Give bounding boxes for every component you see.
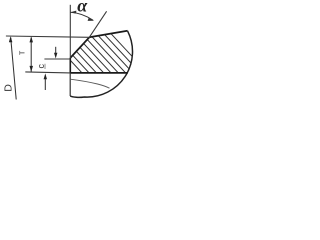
dimension c lower arrow (points up at line B) bbox=[44, 79, 46, 91]
arrowhead T top bbox=[30, 36, 34, 42]
dimension line T bbox=[30, 38, 32, 72]
top face edge (thick) bbox=[89, 31, 127, 38]
chamfer edge (thick) bbox=[70, 37, 89, 58]
arc arrowhead right (at chamfer extension) bbox=[88, 18, 95, 21]
dimension line D (slanted slightly) bbox=[11, 38, 17, 100]
spherical silhouette (right + bottom circular arc) bbox=[70, 31, 132, 98]
hatching (section lines) bbox=[5, 0, 182, 110]
small stem above line B bbox=[44, 64, 46, 69]
top reference line A (thin) bbox=[6, 36, 89, 37]
bore/sphere intersection edge (thin line) bbox=[70, 79, 109, 88]
arrowhead D top bbox=[9, 36, 13, 42]
svg-text:D: D bbox=[3, 84, 15, 92]
lower left edge of part (below section) bbox=[69, 73, 71, 96]
svg-text:c: c bbox=[36, 64, 46, 69]
dimension c upper arrow (points down at line C) bbox=[55, 47, 57, 54]
mid reference line C (thin, chamfer vertex level) bbox=[44, 58, 70, 60]
svg-text:T: T bbox=[19, 50, 26, 55]
chamfer extension line (thin, for angle) bbox=[89, 11, 106, 37]
left vertical edge of part bbox=[69, 58, 71, 73]
section boundary bottom edge (thick) bbox=[70, 72, 128, 74]
vertical extension line above vertex (angle reference) bbox=[69, 5, 71, 58]
arc arrowhead left (at vertical line) bbox=[70, 11, 76, 14]
angle dimension arc bbox=[70, 12, 93, 20]
svg-text:α: α bbox=[77, 0, 88, 16]
arrowhead T bottom bbox=[30, 66, 34, 72]
bottom reference line B extension (thin) bbox=[25, 72, 70, 73]
